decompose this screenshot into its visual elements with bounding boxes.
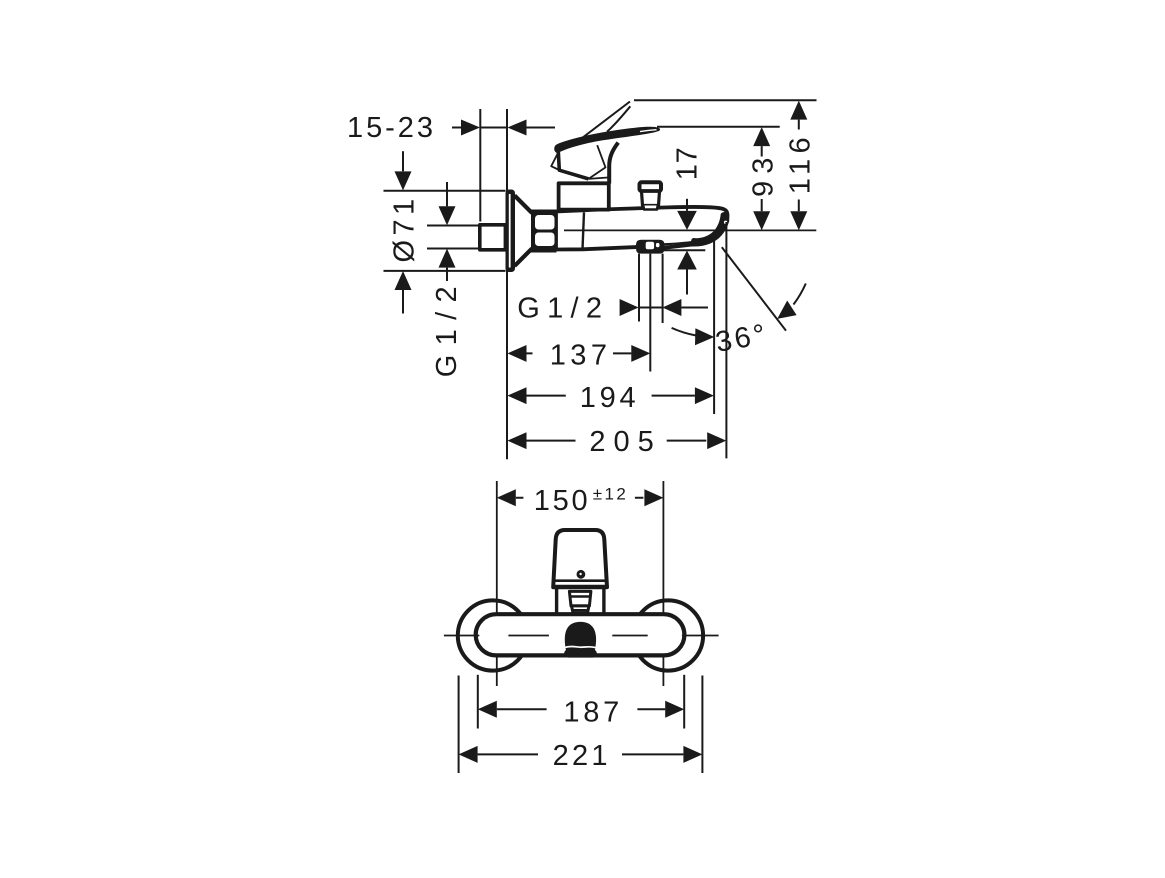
spout front dark silhouette (564, 622, 597, 658)
shower hose outlet (636, 240, 665, 254)
lever neck (609, 143, 618, 184)
centerline front view (444, 635, 719, 637)
connection nut block (531, 210, 557, 253)
escutcheon cone top edge (515, 196, 533, 214)
diverter knob cap (640, 182, 662, 191)
escutcheon circle right (633, 600, 703, 670)
wall connection square (480, 225, 506, 250)
body seam line (583, 212, 585, 249)
svg-text:17: 17 (672, 147, 704, 180)
svg-text:116: 116 (784, 137, 816, 194)
extension line outlet center (649, 254, 651, 372)
reference line outlet center (17 bottom) (664, 249, 706, 251)
extension line supply right (662, 481, 664, 686)
arrow 15-23 left-pointing (508, 120, 527, 136)
dimension line 15-23 (452, 127, 555, 129)
diverter knob body (642, 191, 660, 205)
svg-text:36°: 36° (713, 319, 768, 359)
spout aerator dark band (691, 212, 727, 245)
reference line top of closed lever (93) (657, 126, 780, 128)
arrow 17 bottom up-pointing with stem (677, 251, 697, 270)
arrow wall-thread bottom up-pointing with stem (439, 249, 456, 268)
angle arc left with arrow (672, 328, 696, 336)
spout inner bottom line (663, 242, 693, 245)
angle line 36 degrees (722, 247, 786, 331)
arrow 150 left (497, 489, 516, 506)
svg-text:G1/2: G1/2 (431, 286, 463, 377)
svg-text:194: 194 (580, 382, 636, 414)
spout tip white notch (724, 221, 727, 224)
reference line O71 top (384, 190, 506, 192)
svg-text:137: 137 (550, 340, 607, 372)
svg-text:150: 150 (534, 485, 588, 517)
svg-text:G1/2: G1/2 (517, 293, 602, 325)
arrow hose-thread right left-pointing with tail (662, 299, 681, 316)
dimension 187 (497, 708, 665, 710)
dimension 194 (508, 387, 527, 404)
dimension 205 (508, 432, 527, 449)
dimension 17 vertical (686, 199, 688, 211)
escutcheon cone bottom edge (515, 249, 533, 267)
arrow O71 bottom up-pointing with stem (395, 271, 412, 290)
arrow hose-thread left right-pointing (620, 299, 639, 316)
lever phantom left spike (551, 152, 559, 170)
handle knob front view (553, 530, 607, 587)
lever phantom raised line 2 (607, 106, 630, 132)
dimension 116 vertical (790, 101, 807, 120)
arrow 15-23 right-pointing (461, 120, 480, 136)
faucet body side view (556, 207, 728, 250)
extension line 221 right (701, 676, 703, 774)
neck side right (602, 589, 605, 614)
diverter knob base (643, 206, 658, 210)
lever base wedge bottom thin line (589, 177, 610, 179)
lever phantom raised line 1 (576, 102, 631, 144)
svg-text:187: 187 (563, 697, 619, 729)
centerline body / bottom reference line (564, 229, 816, 231)
lever bar (554, 127, 660, 153)
body bar front view (476, 614, 685, 655)
extension line wall-face x507 (506, 109, 508, 459)
nut window lower (535, 233, 555, 247)
svg-text:93: 93 (747, 158, 779, 197)
dimension 93 vertical (753, 127, 770, 146)
knob bottom flange lines (553, 579, 607, 582)
dimension 137 (508, 345, 527, 362)
svg-text:Ø71: Ø71 (389, 199, 421, 263)
outlet white window (646, 242, 654, 250)
spout front white squiggle (565, 646, 595, 647)
dimension line 150 (516, 497, 644, 499)
escutcheon flange inner line (509, 194, 511, 268)
extension line 187 left (477, 675, 479, 729)
knob dot (577, 570, 586, 579)
angle arc right with arrow (794, 284, 806, 305)
outlet white dot (656, 243, 660, 247)
extension line spout tip x726 (725, 222, 727, 458)
svg-text:221: 221 (553, 740, 608, 772)
reference line wall-thread top (427, 225, 480, 227)
cartridge step upper (569, 591, 591, 606)
arrow O71 top down-pointing with stem (402, 151, 404, 171)
extension line 187 right (683, 675, 685, 729)
cartridge collar (559, 183, 609, 209)
extension line aerator center x714 (713, 241, 715, 415)
reference line O71 bottom (384, 270, 506, 272)
extension line wall-connection x480 (479, 109, 481, 222)
extension line outlet right edge (662, 254, 664, 323)
extension line outlet left edge (638, 254, 640, 322)
lever bar inner highlight (640, 130, 657, 132)
svg-text:15-23: 15-23 (347, 112, 433, 144)
escutcheon circle left (458, 600, 528, 670)
dimension line hose-thread between extension lines (639, 307, 663, 309)
cartridge step lower (572, 606, 589, 613)
reference line wall-thread bottom (427, 248, 480, 250)
nut window upper (535, 215, 555, 230)
arrow wall-thread top down-pointing with stem (446, 182, 448, 206)
lever base wedge thin facet edges (589, 145, 606, 179)
svg-text:205: 205 (589, 426, 653, 458)
neck side left (555, 589, 558, 614)
extension line supply left (496, 481, 498, 686)
svg-text:±12: ±12 (593, 485, 626, 504)
reference line top of open lever (116) (634, 99, 817, 101)
escutcheon flange (506, 190, 516, 273)
dimension 221 (478, 753, 684, 755)
extension line 221 left (458, 676, 460, 774)
arrow 150 right (644, 489, 663, 506)
lever base wedge thick edges (558, 152, 588, 179)
